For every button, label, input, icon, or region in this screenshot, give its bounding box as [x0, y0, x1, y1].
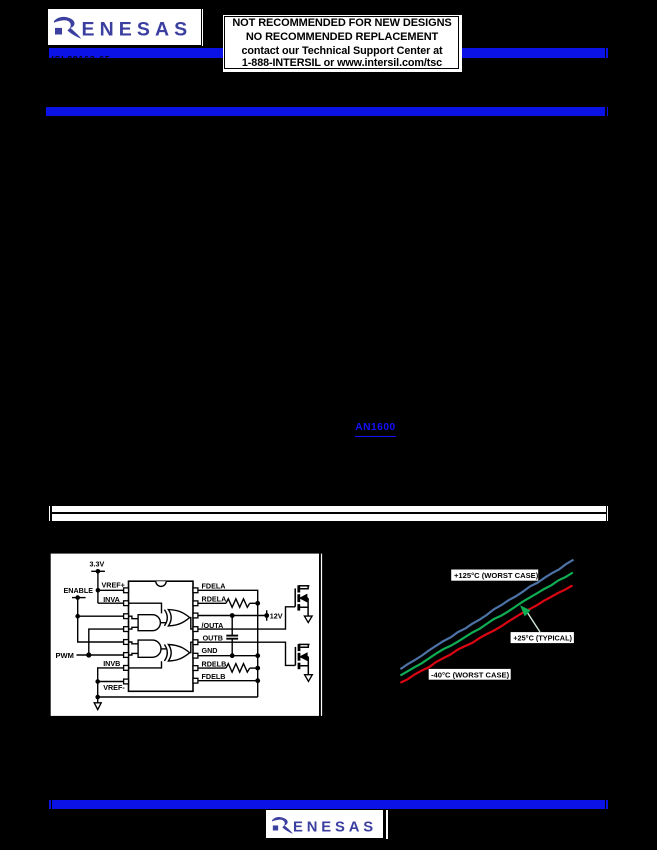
square dot — [55, 27, 62, 34]
ground (Q1 source) — [304, 616, 312, 623]
wire resistor to bus — [250, 667, 258, 669]
node PWM — [86, 652, 91, 657]
wire ENABLE to pin5 — [78, 598, 124, 642]
resistor RDELA — [226, 599, 250, 608]
svg-text:INVA: INVA — [103, 595, 120, 604]
svg-text:GND: GND — [202, 646, 218, 655]
wire X1 output to /OUTA pin — [190, 618, 194, 630]
second blue rule under title — [46, 107, 48, 116]
IC U1 left pins 1-8 — [124, 588, 129, 684]
callout leader line — [527, 612, 540, 632]
XOR gate X2 — [164, 645, 189, 662]
wire C1 to GND — [231, 639, 233, 656]
wire A2 output to X2 — [160, 648, 166, 650]
faint descenders of black text above bar — [52, 96, 138, 107]
wire pin4 to A1 input — [129, 627, 139, 629]
curve +125C worst case (blue) — [400, 560, 573, 669]
NOT RECOMMENDED box — [223, 15, 462, 72]
blue hyperlink (middle of page) — [355, 422, 395, 436]
wire resistor to bus — [250, 602, 258, 604]
wire A1 output to X1 — [160, 622, 166, 624]
terminal ENABLE — [72, 597, 86, 599]
wire FDELA to right bus — [198, 590, 258, 697]
wire X2 output to OUTB pin — [190, 642, 194, 653]
svg-text:+25°C (TYPICAL): +25°C (TYPICAL) — [513, 633, 572, 642]
Renesas logo box (top) — [48, 9, 201, 45]
wire VDD to C1 — [231, 616, 233, 636]
wire pin2 to X1 input — [129, 603, 162, 613]
svg-text:OUTB: OUTB — [203, 633, 223, 642]
wire OUTB to Q2 gate — [198, 642, 296, 665]
Renesas logo box (bottom) — [266, 810, 383, 838]
wire VDD pin to 12V — [198, 615, 267, 617]
svg-text:RDELA: RDELA — [202, 595, 227, 604]
svg-text:FDELA: FDELA — [202, 581, 226, 590]
transistor Q1 (upper N-MOSFET) — [295, 585, 309, 616]
wire INVA pin2 — [98, 602, 124, 604]
wire pin6 to A2 input — [129, 653, 139, 655]
wire /OUTA to Q1 gate — [198, 607, 295, 629]
svg-text:-40°C (WORST CASE): -40°C (WORST CASE) — [431, 670, 510, 679]
ground — [94, 703, 101, 710]
wire ENABLE to pin3 — [78, 615, 124, 617]
terminal 12V — [266, 610, 268, 620]
node 3.3V — [96, 569, 101, 574]
svg-text:VREF+: VREF+ — [102, 581, 125, 590]
circuit panel — [51, 554, 322, 716]
capacitor C1 — [226, 636, 238, 639]
white double bar — [49, 506, 50, 522]
node RDELA/bus — [255, 601, 260, 606]
wire pin5 to A2 input — [129, 642, 139, 644]
wire RDELA pin — [198, 602, 226, 604]
curve -40C worst case (red) — [400, 585, 572, 682]
ground (Q2 source) — [305, 675, 313, 682]
node 12V — [264, 613, 269, 618]
node VREF+ — [96, 588, 101, 593]
wire VREF- pin8 — [98, 681, 124, 683]
AND gate A2 — [138, 640, 161, 657]
svg-text:ENESAS: ENESAS — [82, 18, 193, 40]
label -40C (WORST CASE) — [429, 669, 511, 680]
svg-text:VREF-: VREF- — [103, 683, 125, 692]
wire FDELB to bus — [198, 680, 258, 682]
transistor Q2 (lower N-MOSFET) — [295, 644, 309, 675]
wire GND pin to bus — [198, 655, 258, 657]
svg-text:FDELB: FDELB — [202, 672, 226, 681]
wire INVB to ground bus — [98, 668, 258, 697]
node GND/bus — [255, 653, 260, 658]
wire pin3 to A1 input — [129, 616, 139, 619]
node C1/GND — [230, 653, 235, 658]
svg-text:RDELB: RDELB — [202, 660, 227, 669]
IC U1 right pins 9-16 — [193, 588, 198, 683]
terminal 3.3V — [91, 570, 105, 572]
wire pin7 to X2 input — [129, 661, 162, 668]
svg-text:PWM: PWM — [56, 651, 74, 660]
wire VREF+ pin1 — [98, 589, 124, 591]
node VDD/C1 — [230, 613, 235, 618]
node ground bus — [95, 695, 100, 700]
resistor RDELB — [226, 664, 250, 673]
AND gate A1 — [138, 615, 160, 631]
wire ground stub — [97, 697, 99, 703]
wire PWM to pin6 — [77, 654, 124, 656]
svg-text:+125°C (WORST CASE): +125°C (WORST CASE) — [454, 571, 539, 580]
label +125C (WORST CASE) — [451, 570, 539, 581]
XOR gate X1 — [164, 610, 189, 626]
wire RDELB pin — [198, 667, 226, 669]
label +25C (TYPICAL) — [511, 632, 574, 643]
node FDELB/bus — [255, 678, 260, 683]
wire PWM to pin4 — [89, 629, 124, 655]
node ENABLE — [75, 595, 80, 600]
svg-text:ENABLE: ENABLE — [64, 586, 94, 595]
callout arrowhead — [520, 605, 531, 616]
dark part-number text overlapping bar bottom — [52, 54, 111, 64]
top blue rule (left tick, main, right tick) — [49, 48, 51, 57]
node ENABLE/pin3 — [75, 614, 80, 619]
svg-text:12V: 12V — [270, 611, 283, 620]
svg-text:INVB: INVB — [103, 659, 120, 668]
svg-text:3.3V: 3.3V — [90, 560, 105, 569]
curve +25C typical (green) — [400, 573, 572, 676]
node RDELB/bus — [255, 666, 260, 671]
R swoosh — [54, 16, 82, 38]
node VREF- — [95, 679, 100, 684]
wire 3.3V to VREF+ — [97, 571, 99, 603]
op-amp U1 (driver IC body with notch) — [129, 581, 194, 691]
